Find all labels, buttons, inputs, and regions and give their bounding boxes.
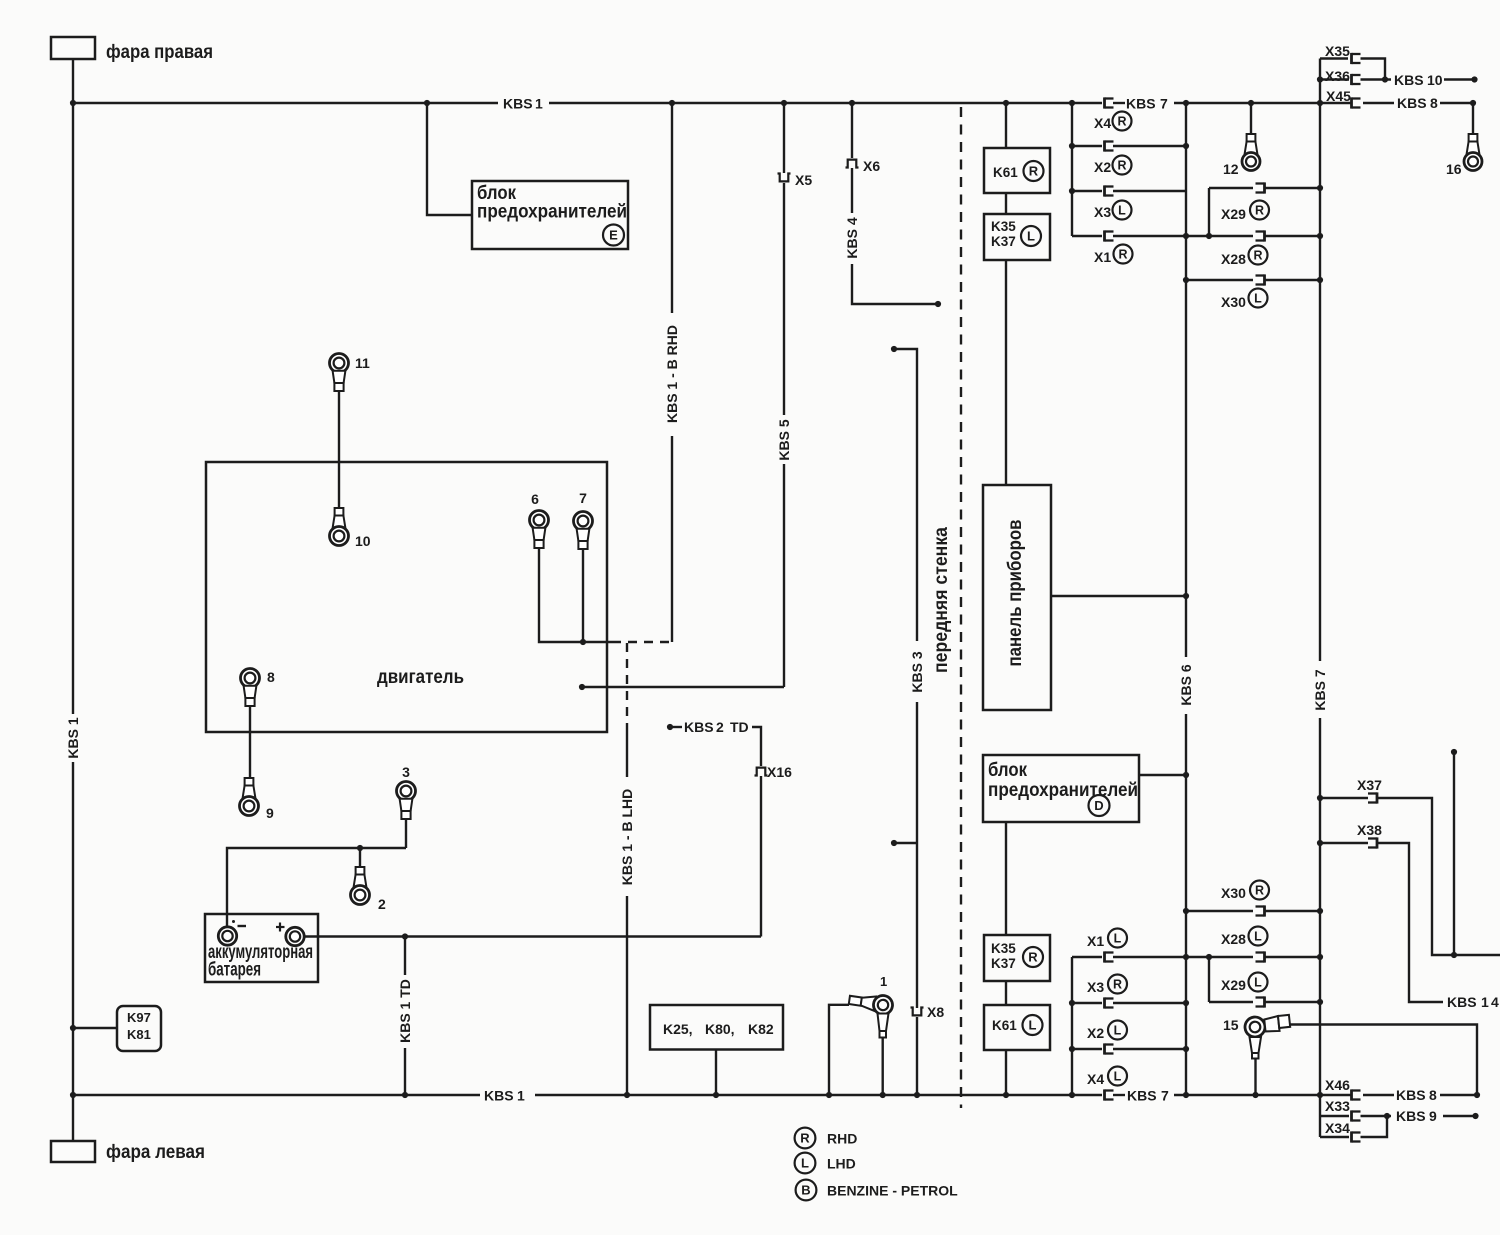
battery plus sign	[276, 923, 285, 932]
wire ring 15 to KBS 8 end	[1290, 1025, 1477, 1096]
label 7	[579, 490, 587, 506]
svg-text:X1: X1	[1087, 933, 1104, 949]
svg-text:L: L	[1114, 932, 1122, 946]
wire X29 row bottom	[1209, 1001, 1253, 1003]
node KBS 9 end	[1472, 1113, 1478, 1119]
label KBS 7 bottom	[1127, 1088, 1169, 1104]
svg-text:2: 2	[378, 896, 386, 912]
svg-text:KBS 3: KBS 3	[909, 651, 925, 692]
node bottom bus / KBS 6	[1183, 1092, 1189, 1098]
wire X16 riser	[760, 776, 762, 937]
svg-text:предохранителей: предохранителей	[477, 201, 627, 223]
node KBS 2 TD end	[667, 724, 673, 730]
label X45	[1326, 88, 1351, 104]
label X4 R	[1094, 112, 1132, 132]
svg-text:KBS 5: KBS 5	[776, 419, 792, 460]
wire X28 row bottom right	[1265, 956, 1321, 958]
connector X8	[911, 1008, 924, 1016]
connector X5	[778, 174, 791, 182]
wire KBS 7 lower	[1319, 718, 1321, 1137]
svg-text:7: 7	[1160, 96, 1168, 112]
svg-text:R: R	[1118, 248, 1127, 262]
node bottom bus / X8	[914, 1092, 920, 1098]
ring terminal 16	[1464, 134, 1482, 171]
label KBS 4	[844, 217, 860, 258]
svg-text:L: L	[1114, 1024, 1122, 1038]
label KBS 3	[909, 651, 925, 692]
ring terminal 3	[397, 782, 416, 820]
svg-text:X6: X6	[863, 158, 880, 174]
wire K61 L to bottom bus	[1005, 1050, 1007, 1095]
wire X2 row top	[1072, 145, 1102, 147]
circled R in K61 box	[1024, 161, 1044, 181]
wire ring 7 drop	[582, 549, 584, 643]
svg-text:L: L	[1254, 930, 1262, 944]
node KBS 4 end	[935, 301, 941, 307]
label KBS 14	[1447, 994, 1499, 1010]
label X2 R	[1094, 156, 1132, 176]
label X36	[1325, 68, 1350, 84]
wire K25 box tap	[715, 1050, 717, 1096]
label передняя стенка	[930, 527, 952, 673]
label предохранителей D	[988, 779, 1138, 801]
node KBS 6 / panel tap	[1183, 593, 1189, 599]
wire X5 upper	[783, 103, 785, 173]
svg-text:KBS: KBS	[1126, 96, 1156, 112]
label фара правая	[106, 41, 213, 63]
svg-text:K37: K37	[991, 956, 1016, 971]
label X1 L	[1087, 929, 1127, 950]
wire KBS 3 lower	[916, 702, 918, 1008]
legend LHD	[827, 1156, 856, 1172]
wire ring 3 drop	[405, 819, 407, 849]
svg-text:R: R	[1255, 204, 1264, 218]
label X30 R	[1221, 881, 1269, 902]
svg-text:L: L	[1118, 204, 1126, 218]
label K37 bottom	[991, 956, 1016, 971]
svg-text:15: 15	[1223, 1017, 1239, 1033]
node engine output	[579, 684, 585, 690]
legend circled B	[796, 1180, 817, 1201]
wire KBS 1 - B LHD mid	[626, 729, 628, 777]
wire ring 6 drop	[539, 548, 612, 643]
svg-text:2: 2	[716, 719, 724, 735]
node KBS 3 stub end	[891, 840, 897, 846]
wire K61 to K35	[1005, 193, 1007, 214]
node bottom bus / ring 1 elbow	[826, 1092, 832, 1098]
node top bus / KBS 7	[1317, 100, 1323, 106]
node top bus / X column	[1069, 100, 1075, 106]
label X35	[1325, 43, 1350, 59]
svg-text:R: R	[800, 1131, 810, 1146]
label 6	[531, 491, 539, 507]
label KBS 9	[1396, 1108, 1437, 1124]
svg-text:X28: X28	[1221, 251, 1246, 267]
label фара левая	[106, 1141, 205, 1163]
svg-text:KBS 1 - B LHD: KBS 1 - B LHD	[619, 789, 635, 885]
box battery (аккумуляторная батарея)	[205, 914, 318, 982]
svg-text:X30: X30	[1221, 885, 1246, 901]
wire X6 upper	[851, 103, 853, 158]
svg-text:X34: X34	[1325, 1120, 1350, 1136]
connector X30 bottom	[1256, 905, 1265, 916]
wire X3 row bottom	[1072, 1002, 1102, 1004]
svg-text:R: R	[1029, 164, 1039, 179]
label K25 K80 K82	[663, 1021, 774, 1037]
wire KBS 1 - B LHD lower	[626, 896, 628, 1095]
wire KBS 1 left bus upper	[72, 103, 74, 714]
label X8	[927, 1004, 944, 1020]
label X29 R	[1221, 201, 1269, 223]
node X34 riser / X33 row	[1384, 1113, 1390, 1119]
label блок D	[988, 759, 1027, 781]
connector X30 top	[1256, 274, 1265, 285]
svg-text:L: L	[1029, 1018, 1037, 1033]
label X34	[1325, 1120, 1350, 1136]
wire X30 row top	[1186, 279, 1253, 281]
svg-text:K81: K81	[127, 1027, 151, 1042]
connector X6	[846, 160, 859, 168]
wire X37 elbow	[1377, 798, 1500, 955]
node bottom bus / ring 15	[1252, 1092, 1258, 1098]
wire X34 stub	[1320, 1136, 1349, 1138]
wire right stub vertical	[1453, 752, 1455, 955]
label K35 bottom	[991, 941, 1016, 956]
node KBS 6 / X30 row	[1183, 277, 1189, 283]
label 9	[266, 805, 274, 821]
label X46	[1325, 1077, 1350, 1093]
svg-text:16: 16	[1446, 161, 1462, 177]
label KBS 2 TD	[684, 719, 749, 735]
label KBS 1 bottom	[484, 1088, 525, 1104]
label KBS 8 top	[1397, 95, 1438, 111]
wire KBS 7 upper	[1319, 59, 1321, 662]
svg-text:X8: X8	[927, 1004, 944, 1020]
svg-text:K97: K97	[127, 1010, 151, 1025]
label K61 bottom	[992, 1018, 1017, 1033]
label двигатель	[377, 666, 464, 688]
box K61 L	[984, 1005, 1050, 1050]
ring terminal 2	[351, 867, 370, 905]
svg-text:B: B	[801, 1183, 810, 1198]
svg-text:KBS: KBS	[1394, 72, 1424, 88]
svg-text:K82: K82	[748, 1021, 774, 1037]
svg-text:KBS: KBS	[1396, 1108, 1426, 1124]
svg-text:K35: K35	[991, 941, 1016, 956]
svg-text:X5: X5	[795, 172, 812, 188]
connector X28 top row upper	[1256, 182, 1265, 193]
wire left headlamp drop	[72, 1095, 74, 1141]
node KBS 8 corner	[1470, 100, 1476, 106]
node KBS 6 / X1 row	[1183, 233, 1189, 239]
svg-text:X1: X1	[1094, 249, 1111, 265]
svg-text:1: 1	[880, 974, 887, 989]
connector X2 top	[1105, 140, 1114, 151]
wire X28 row right top	[1265, 235, 1321, 237]
svg-text:X3: X3	[1094, 204, 1111, 220]
wire X30 row right top	[1265, 279, 1321, 281]
wire X33 to KBS 9	[1361, 1115, 1392, 1117]
wire X column bottom	[1071, 957, 1073, 1095]
label K81	[127, 1027, 151, 1042]
right headlamp box (фара правая)	[51, 37, 95, 59]
svg-text:LHD: LHD	[827, 1156, 856, 1172]
ring terminal 6	[530, 511, 549, 549]
label X5	[795, 172, 812, 188]
connector X34	[1352, 1131, 1361, 1142]
ring terminal 15	[1244, 1013, 1291, 1058]
node KBS 6 / X30 row bottom	[1183, 908, 1189, 914]
wire KBS 6 lower	[1185, 714, 1187, 1095]
circled D	[1089, 795, 1110, 816]
ring terminal 12	[1242, 134, 1260, 171]
svg-text:6: 6	[531, 491, 539, 507]
svg-text:8: 8	[1430, 95, 1438, 111]
circled L in K61 bottom box	[1023, 1015, 1043, 1035]
left headlamp box (фара левая)	[51, 1141, 95, 1162]
node KBS 6 / X2 row	[1183, 143, 1189, 149]
wire X38 row	[1320, 842, 1368, 844]
wire KBS 2 TD stub	[670, 726, 682, 728]
battery minus terminal	[218, 927, 236, 945]
svg-text:TD: TD	[730, 719, 749, 735]
wire K35 box to instrument panel	[1005, 260, 1007, 485]
wire dashed engine to RHD line	[612, 641, 672, 643]
svg-text:KBS 1 - B RHD: KBS 1 - B RHD	[664, 325, 680, 423]
box K97 K81	[117, 1006, 161, 1051]
node KBS 6 / X2 row bottom	[1183, 1046, 1189, 1052]
svg-text:X29: X29	[1221, 206, 1246, 222]
wire KBS 2 TD elbow	[752, 727, 761, 766]
label предохранителей E	[477, 201, 627, 223]
connector X29 bottom	[1256, 996, 1265, 1007]
svg-text:X30: X30	[1221, 294, 1246, 310]
node KBS 7 / X29 row	[1317, 185, 1323, 191]
label X1 R	[1094, 245, 1133, 266]
battery minus sign	[232, 920, 246, 926]
wire X2 row bottom right	[1113, 1048, 1186, 1050]
label 3	[402, 764, 410, 780]
wire X1-X28 row bottom	[1113, 956, 1253, 958]
wire KBS 1 TD upper	[404, 937, 406, 976]
wire X30 row bottom	[1186, 910, 1253, 912]
connector X1 top	[1105, 230, 1114, 241]
svg-text:L: L	[1254, 292, 1262, 306]
node X36 row / X35	[1382, 76, 1388, 82]
svg-text:блок: блок	[988, 759, 1027, 781]
svg-text:L: L	[1114, 1070, 1122, 1084]
label X29 L	[1221, 973, 1268, 994]
label KBS 8 bottom	[1396, 1087, 1437, 1103]
node top bus / X6	[849, 100, 855, 106]
wire K97 tap	[73, 1027, 117, 1029]
wire X column top	[1071, 103, 1073, 236]
wire X29 row top	[1209, 187, 1253, 189]
label KBS 10	[1394, 72, 1443, 88]
node KBS 7 / X29 row bottom	[1317, 999, 1323, 1005]
ring terminal 8	[241, 669, 260, 707]
svg-text:батарея: батарея	[208, 959, 261, 981]
svg-text:L: L	[1254, 976, 1262, 990]
svg-text:KBS: KBS	[1127, 1088, 1157, 1104]
svg-text:X29: X29	[1221, 977, 1246, 993]
node bottom bus / K25 tap	[713, 1092, 719, 1098]
svg-text:X3: X3	[1087, 979, 1104, 995]
svg-text:KBS: KBS	[1447, 994, 1477, 1010]
label X37	[1357, 777, 1382, 793]
svg-text:R: R	[1028, 950, 1038, 965]
box K35 K37 L	[984, 214, 1050, 260]
svg-text:D: D	[1094, 798, 1103, 813]
wire X3 row bottom right	[1113, 1002, 1186, 1004]
wire engine to KBS 5	[582, 686, 784, 688]
svg-text:KBS 7: KBS 7	[1312, 669, 1328, 710]
svg-text:R: R	[1255, 884, 1264, 898]
label 1	[880, 974, 887, 989]
svg-text:K61: K61	[992, 1018, 1017, 1033]
wire X8 to bottom bus	[916, 1017, 918, 1095]
wire D box to KBS 6	[1139, 774, 1186, 776]
node KBS 6 / X1 row bottom	[1183, 954, 1189, 960]
svg-text:1: 1	[1481, 994, 1489, 1010]
svg-text:L: L	[801, 1156, 809, 1171]
battery plus terminal	[286, 927, 304, 945]
connector X37	[1368, 792, 1377, 803]
svg-text:KBS: KBS	[484, 1088, 514, 1104]
svg-text:X2: X2	[1094, 159, 1111, 175]
node X column / X3 row	[1069, 188, 1075, 194]
legend circled R	[795, 1128, 816, 1149]
node top bus left corner	[70, 100, 76, 106]
svg-text:E: E	[609, 228, 618, 243]
svg-text:8: 8	[1429, 1087, 1437, 1103]
connector X28 bottom	[1256, 951, 1265, 962]
svg-text:9: 9	[1429, 1108, 1437, 1124]
label X16	[767, 764, 792, 780]
svg-text:передняя стенка: передняя стенка	[930, 527, 952, 673]
wire KBS 1 - B RHD lower	[671, 436, 673, 642]
svg-text:X4: X4	[1094, 115, 1111, 131]
label X28 L	[1221, 927, 1268, 948]
node X29 riser / X1 row	[1206, 233, 1212, 239]
svg-text:X4: X4	[1087, 1071, 1104, 1087]
svg-text:X36: X36	[1325, 68, 1350, 84]
node KBS 7 / X30 row bottom	[1317, 908, 1323, 914]
label 12	[1223, 161, 1239, 177]
svg-text:1: 1	[517, 1088, 525, 1104]
svg-text:RHD: RHD	[827, 1131, 857, 1147]
wire ring 8 to ring 9	[249, 706, 251, 779]
node bottom bus / X column	[1069, 1092, 1075, 1098]
wire X35 elbow	[1361, 59, 1386, 80]
node X column / X2 row bottom	[1069, 1046, 1075, 1052]
label K37 top	[991, 234, 1016, 249]
wire X29 riser bottom	[1208, 957, 1210, 1002]
wire X34 elbow	[1361, 1116, 1388, 1137]
svg-text:3: 3	[402, 764, 410, 780]
svg-text:двигатель: двигатель	[377, 666, 464, 688]
wire X1 row top	[1072, 235, 1102, 237]
svg-text:K35: K35	[991, 219, 1016, 234]
wire ring 15 drop	[1254, 1059, 1256, 1096]
connector X28 top	[1256, 230, 1265, 241]
svg-text:12: 12	[1223, 161, 1239, 177]
label KBS 1 left vertical	[65, 717, 81, 758]
ring terminal 7	[574, 512, 593, 550]
wire X29 row bottom right	[1265, 1001, 1321, 1003]
svg-text:фара левая: фара левая	[106, 1141, 205, 1163]
box instrument panel (панель приборов)	[983, 485, 1051, 710]
label 2	[378, 896, 386, 912]
legend BENZINE - PETROL	[827, 1183, 958, 1199]
wire KBS 1 TD lower	[404, 1048, 406, 1095]
wire X2 row bottom	[1072, 1048, 1102, 1050]
svg-text:KBS 6: KBS 6	[1178, 664, 1194, 705]
box fuse block E (блок предохранителей)	[472, 181, 628, 249]
connector X3 bottom	[1105, 997, 1114, 1008]
box K35 K37 R	[984, 935, 1050, 981]
wire KBS 5 upper	[783, 183, 785, 415]
wire KBS 1 bottom bus	[73, 1094, 1477, 1096]
node KBS 7 / X36 row	[1317, 76, 1323, 82]
node top bus / fuse E tap	[424, 100, 430, 106]
svg-text:X35: X35	[1325, 43, 1350, 59]
box fuse block D	[983, 755, 1139, 822]
svg-text:R: R	[1113, 978, 1122, 992]
connector KBS 7 top feed	[1105, 97, 1114, 108]
label KBS 1 - B LHD	[619, 789, 635, 885]
svg-text:X28: X28	[1221, 931, 1246, 947]
wire X38 elbow KBS 14	[1377, 843, 1443, 1002]
label K61	[993, 165, 1018, 180]
svg-text:панель приборов: панель приборов	[1004, 519, 1026, 666]
svg-text:X45: X45	[1326, 88, 1351, 104]
svg-text:KBS: KBS	[1397, 95, 1427, 111]
wire ring 11 to ring 10	[338, 391, 340, 509]
wire X29 row right top	[1265, 187, 1321, 189]
svg-text:7: 7	[579, 490, 587, 506]
wire X1-X28 row top	[1113, 235, 1253, 237]
svg-text:KBS: KBS	[684, 719, 714, 735]
wire KBS 3 top elbow	[894, 349, 917, 641]
wire ring 2 drop	[359, 848, 361, 867]
svg-text:11: 11	[355, 355, 370, 371]
wire X30 row bottom right	[1265, 910, 1321, 912]
wire KBS 4 lower elbow	[852, 264, 938, 304]
label K35 top	[991, 219, 1016, 234]
connector X3 top	[1105, 185, 1114, 196]
svg-text:K37: K37	[991, 234, 1016, 249]
svg-text:L: L	[1027, 229, 1035, 244]
label 10	[355, 533, 371, 549]
svg-text:X33: X33	[1325, 1098, 1350, 1114]
dashed line front wall	[960, 107, 962, 1108]
wire KBS 1 left bus lower	[72, 762, 74, 1095]
node right stub top end	[1451, 749, 1457, 755]
node KBS 6 / D tap	[1183, 772, 1189, 778]
svg-text:KBS 1: KBS 1	[65, 717, 81, 758]
svg-text:BENZINE - PETROL: BENZINE - PETROL	[827, 1183, 958, 1199]
svg-text:7: 7	[1161, 1088, 1169, 1104]
wire ring 16 drop	[1472, 103, 1474, 134]
label X3 R	[1087, 975, 1127, 996]
label панель приборов	[1004, 519, 1026, 666]
node bottom bus / B LHD	[624, 1092, 630, 1098]
node bottom bus / KBS 7	[1317, 1092, 1323, 1098]
node KBS 1 TD tee	[402, 933, 408, 939]
svg-text:9: 9	[266, 805, 274, 821]
node KBS 7 / X38 row	[1317, 840, 1323, 846]
